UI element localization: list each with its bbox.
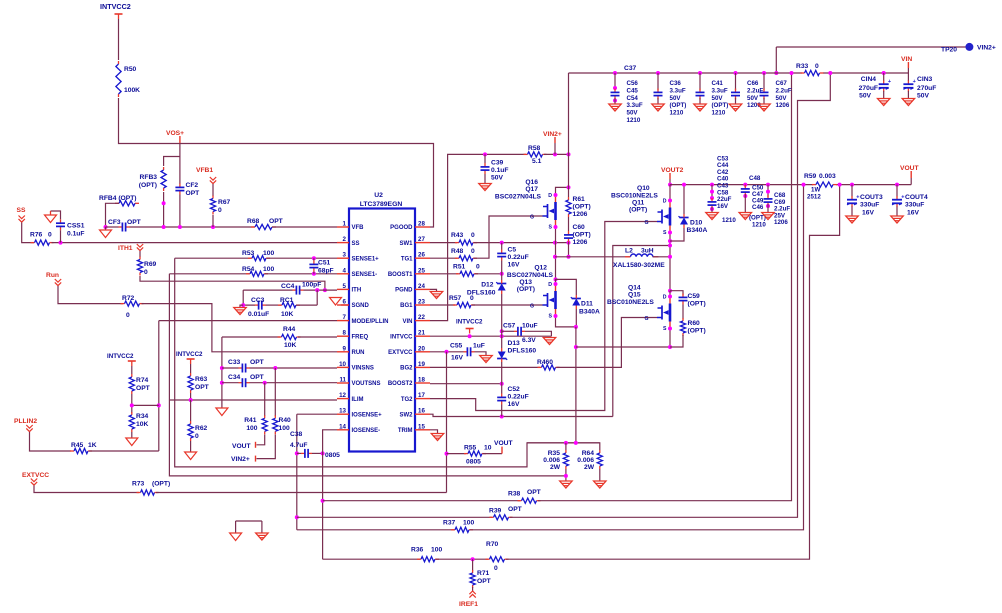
svg-text:270uF: 270uF <box>859 85 878 92</box>
svg-text:0.01uF: 0.01uF <box>248 311 269 318</box>
svg-text:50V: 50V <box>627 110 639 117</box>
svg-text:DFLS160: DFLS160 <box>467 290 496 297</box>
resistor RFB4 (OPT) <box>115 202 119 204</box>
wire BOOST2 pin 18 to D13/C52 node <box>430 383 502 385</box>
wire R63 to ILIM <box>190 393 192 400</box>
svg-text:Q12: Q12 <box>534 265 547 272</box>
svg-text:25: 25 <box>418 267 425 274</box>
wire CSS1 bottom to SS line <box>60 230 62 242</box>
svg-text:27: 27 <box>418 236 425 243</box>
svg-text:R59: R59 <box>804 173 817 180</box>
wire D11 anode down <box>575 309 577 327</box>
junction R63/R62 on ILIM <box>189 398 193 402</box>
svg-text:28: 28 <box>418 221 425 228</box>
svg-text:2W: 2W <box>584 464 595 471</box>
svg-text:R61: R61 <box>573 196 586 203</box>
net flag IREF1 <box>469 591 475 598</box>
capacitor CSS1 0.1uF <box>60 219 62 223</box>
wire RC1 to branch <box>296 304 317 306</box>
junction EXTVCC node <box>445 350 449 354</box>
resistor R35 0.006 2W <box>565 443 567 450</box>
wire SS to R76 <box>22 223 34 243</box>
svg-text:C66: C66 <box>747 80 759 87</box>
svg-text:R63: R63 <box>195 376 208 383</box>
svg-text:0.22uF: 0.22uF <box>508 254 529 261</box>
svg-text:(OPT): (OPT) <box>749 215 766 222</box>
svg-text:MODE/PLLIN: MODE/PLLIN <box>352 319 389 325</box>
resistor R43 0 <box>455 242 459 244</box>
resistor R51 0 <box>456 273 460 275</box>
wire R36 line <box>323 558 420 560</box>
svg-text:B340A: B340A <box>687 227 708 234</box>
svg-text:+: + <box>888 79 891 85</box>
wire VFB line <box>106 226 119 228</box>
svg-text:OPT: OPT <box>508 506 523 513</box>
svg-text:2W: 2W <box>550 464 561 471</box>
resistor R39 OPT <box>490 516 494 518</box>
resistor R71 OPT <box>472 570 474 573</box>
svg-text:10K: 10K <box>281 311 293 318</box>
wire tap to R74/R34 <box>132 404 159 406</box>
svg-text:IREF1: IREF1 <box>459 601 478 608</box>
svg-text:R48: R48 <box>451 248 464 255</box>
earth ground C33/C34/R44 <box>216 408 228 416</box>
svg-text:Q17: Q17 <box>525 186 538 193</box>
svg-text:Q16: Q16 <box>525 179 538 186</box>
earth ground R34 <box>126 438 138 446</box>
pin 17 TG2 <box>415 398 430 400</box>
svg-text:270uF: 270uF <box>917 85 936 92</box>
svg-text:24: 24 <box>418 283 425 290</box>
pin 23 BG1 <box>415 304 430 306</box>
pin 22 VIN <box>415 320 430 322</box>
wire R55 to VOUT tick <box>483 453 502 455</box>
svg-text:(OPT): (OPT) <box>573 232 591 239</box>
svg-text:BG1: BG1 <box>400 303 413 309</box>
resistor R69 0 <box>139 257 141 260</box>
svg-text:R51: R51 <box>453 264 466 271</box>
svg-text:6: 6 <box>343 299 347 306</box>
wire Q12 drain jog to D11 <box>556 279 577 295</box>
junction RFB3/RFB4 <box>162 201 166 205</box>
wire Q14 source down <box>669 329 671 348</box>
svg-text:(OPT): (OPT) <box>139 182 157 189</box>
op-amp U2 LTC3789EGN body <box>349 209 415 452</box>
svg-text:OPT: OPT <box>477 578 492 585</box>
svg-text:IOSENSE-: IOSENSE- <box>352 428 381 434</box>
svg-text:1206: 1206 <box>573 211 588 218</box>
svg-text:0.006: 0.006 <box>543 457 560 464</box>
transistor Q14/Q15 BSC010NE2LS <box>669 304 672 322</box>
svg-text:Q13: Q13 <box>519 279 532 286</box>
pin 13 IOSENSE+ <box>337 413 349 415</box>
svg-text:0805: 0805 <box>466 459 481 466</box>
resistor RFB3 (OPT) <box>163 167 165 170</box>
capacitor COUT4 330uF 16V <box>895 183 899 187</box>
wire TP20 riser to VIN bus <box>775 47 777 73</box>
junction C39 tap <box>483 152 487 156</box>
junction L2 left on SW1 <box>567 255 571 259</box>
svg-text:0.006: 0.006 <box>577 457 594 464</box>
junction C5 top <box>500 241 504 245</box>
wire IOSENSE+ long riser <box>296 414 298 530</box>
svg-text:C43: C43 <box>717 183 729 190</box>
wire D10 anode to SW2 node <box>670 228 684 241</box>
svg-text:0: 0 <box>476 264 480 271</box>
wire SGND pin 6 to ground <box>341 304 349 306</box>
svg-text:4.7uF: 4.7uF <box>290 442 307 449</box>
chassis ground at CC3 <box>240 305 243 307</box>
svg-text:16V: 16V <box>451 355 463 362</box>
svg-text:0.003: 0.003 <box>819 173 836 180</box>
wire R460 to Q14 gate <box>557 318 658 368</box>
svg-text:1: 1 <box>343 221 347 228</box>
svg-text:D: D <box>548 193 552 199</box>
chassis ground C39 <box>479 184 491 191</box>
svg-text:R68: R68 <box>247 218 260 225</box>
svg-text:Q14: Q14 <box>628 285 641 292</box>
svg-text:BSC027N04LS: BSC027N04LS <box>495 194 542 201</box>
svg-text:INTVCC2: INTVCC2 <box>100 2 131 11</box>
svg-text:0805: 0805 <box>325 452 340 459</box>
svg-text:PGOOD: PGOOD <box>390 225 413 231</box>
resistor R60 (OPT) <box>682 318 684 321</box>
svg-text:R67: R67 <box>218 199 231 206</box>
svg-text:100: 100 <box>463 520 474 527</box>
junction R40 tap on VINSNS <box>273 366 277 370</box>
wire C57 to ground <box>525 331 551 336</box>
svg-text:100K: 100K <box>124 87 140 94</box>
wire C34 to pin 11 VOUTSNS <box>250 382 338 384</box>
wire C59/R60 snubber branch <box>670 291 683 295</box>
svg-text:RUN: RUN <box>352 350 365 356</box>
pin 5 ITH <box>337 288 349 290</box>
svg-text:R44: R44 <box>283 326 296 333</box>
svg-text:TG1: TG1 <box>401 256 413 262</box>
junction VOUT2 bus <box>668 183 672 187</box>
resistor R72 0 <box>121 303 125 305</box>
capacitor column C48/C50/C47/C49/C46 (OPT) 1210 <box>743 183 747 187</box>
svg-text:0.1uF: 0.1uF <box>67 231 84 238</box>
wire Q16 drain to VIN2+ rail <box>556 187 569 195</box>
svg-text:(OPT): (OPT) <box>517 286 535 293</box>
wire R72 to pin 9 RUN <box>142 304 338 352</box>
svg-text:R64: R64 <box>582 450 595 457</box>
diode D13 DFLS160 <box>498 352 506 359</box>
svg-text:1206: 1206 <box>776 102 790 109</box>
capacitor column C53/C44/C42/C40/C43/C58 22uF 16V 1210 <box>710 183 714 187</box>
svg-text:8: 8 <box>343 330 347 337</box>
junction R35 top <box>564 441 568 445</box>
junction INTVCC2 tap <box>468 334 472 338</box>
junction R38 start <box>321 499 325 503</box>
svg-text:1uF: 1uF <box>473 343 485 350</box>
svg-text:S: S <box>663 326 667 332</box>
svg-text:INTVCC2: INTVCC2 <box>456 319 483 326</box>
wire SENSE1+ long run to sense resistors <box>175 258 600 467</box>
capacitor column C68/C69 2.2uF 25V 1206 <box>766 183 770 187</box>
svg-text:BOOST2: BOOST2 <box>388 381 413 387</box>
svg-text:R39: R39 <box>489 508 502 515</box>
wire EXTVCC to R73 <box>34 486 139 493</box>
svg-text:CF3: CF3 <box>108 219 121 226</box>
capacitor CIN4 270uF 50V <box>882 71 886 75</box>
test point TP20 <box>965 43 973 51</box>
resistor R38 OPT <box>518 500 522 502</box>
earth ground at CSS1 <box>45 215 57 223</box>
pin 9 RUN <box>337 351 349 353</box>
svg-text:D: D <box>548 282 552 288</box>
wire R74 to junction <box>131 394 133 413</box>
wire RC1 branch down <box>316 290 318 305</box>
svg-text:OPT: OPT <box>127 219 142 226</box>
wire INTVCC pin 21 line <box>430 335 551 337</box>
svg-text:+: + <box>856 194 859 200</box>
svg-text:R35: R35 <box>548 450 561 457</box>
wire ITH compensation line <box>243 289 292 291</box>
svg-text:3.3uF: 3.3uF <box>627 102 643 109</box>
svg-text:50V: 50V <box>859 93 871 100</box>
svg-text:U2: U2 <box>374 192 383 199</box>
pin 7 MODE/PLLIN <box>337 320 349 322</box>
svg-text:CIN4: CIN4 <box>861 76 877 83</box>
wire R73 to EXTVCC pin riser <box>156 492 447 494</box>
junction R67 on VFB <box>211 225 215 229</box>
svg-text:VOUT: VOUT <box>232 443 251 450</box>
junction CF2 on VFB <box>178 225 182 229</box>
svg-text:TP20: TP20 <box>941 47 957 54</box>
junction C51 top <box>312 256 316 260</box>
wire Q12 source to D11 anode <box>556 316 576 327</box>
svg-text:BSC010NE2LS: BSC010NE2LS <box>607 299 654 306</box>
svg-text:2.2uF: 2.2uF <box>776 87 792 94</box>
wire VIN2+ rail top <box>568 73 570 187</box>
wire R40 to VIN2+ tick <box>257 435 276 459</box>
wire BG1 to Q12 gate <box>472 304 543 306</box>
svg-text:Q11: Q11 <box>632 200 645 207</box>
svg-text:Q15: Q15 <box>628 292 641 299</box>
svg-text:R58: R58 <box>528 145 541 152</box>
svg-text:S: S <box>549 225 553 231</box>
junction VFB left <box>104 225 108 229</box>
svg-text:VOUT: VOUT <box>900 165 919 172</box>
diode D10 B340A <box>683 185 685 214</box>
svg-text:0: 0 <box>144 269 148 276</box>
svg-text:2: 2 <box>343 236 347 243</box>
svg-text:COUT3: COUT3 <box>860 194 883 201</box>
svg-text:Q10: Q10 <box>637 185 650 192</box>
svg-text:(OPT): (OPT) <box>688 301 706 308</box>
svg-text:9: 9 <box>343 345 347 352</box>
svg-text:G: G <box>644 316 648 322</box>
wire VOUT2 tick down <box>669 179 671 185</box>
wire VIN bus <box>569 72 803 74</box>
svg-text:SS: SS <box>17 207 26 214</box>
wire source node down to sense resistors <box>575 327 577 443</box>
pin 26 TG1 <box>415 257 430 259</box>
svg-text:R62: R62 <box>195 425 208 432</box>
svg-text:+: + <box>913 79 916 85</box>
wire Q10 drain to VOUT2 <box>669 185 671 201</box>
wire link to Q14 source <box>576 346 670 348</box>
svg-text:R60: R60 <box>688 320 701 327</box>
inductor L2 3uH <box>625 256 631 258</box>
svg-text:COUT4: COUT4 <box>905 194 928 201</box>
resistor R64 0.006 2W <box>599 450 601 453</box>
wire C39 to R58 <box>487 153 526 155</box>
junction C34 left <box>220 381 224 385</box>
svg-text:C59: C59 <box>688 293 701 300</box>
junction PGND link <box>574 345 578 349</box>
wire VFB1 to R67 <box>212 184 214 196</box>
svg-text:C37: C37 <box>624 65 637 72</box>
wire R38 to VIN bus riser <box>538 73 792 501</box>
svg-text:ITH1: ITH1 <box>118 245 133 252</box>
wire BOOST1 pin 25 to R51 <box>430 273 458 275</box>
wire VFB line CF3 to R68 <box>130 226 256 228</box>
svg-text:D: D <box>663 295 667 301</box>
capacitor C59 (OPT) <box>682 294 684 298</box>
svg-text:0: 0 <box>494 565 498 572</box>
junction VIN2+ rail <box>567 152 571 156</box>
resistor RC1 10K <box>278 304 282 306</box>
svg-text:R38: R38 <box>508 491 521 498</box>
svg-text:D13: D13 <box>508 340 521 347</box>
svg-text:VOS+: VOS+ <box>166 130 184 137</box>
svg-text:0: 0 <box>48 232 52 239</box>
svg-text:100: 100 <box>431 547 442 554</box>
junction Q12 source node <box>574 325 578 329</box>
junction VIN2+ tick <box>553 152 557 156</box>
svg-text:SS: SS <box>352 241 360 247</box>
resistor R44 10K <box>278 336 282 338</box>
svg-text:VIN2+: VIN2+ <box>543 131 562 138</box>
wire CSS1 top hook to ground <box>51 211 61 219</box>
svg-text:1210: 1210 <box>712 110 726 117</box>
capacitor C39 0.1uF 50V <box>484 154 486 163</box>
wire SENSE1- long run to sense resistors <box>169 274 566 476</box>
svg-text:IOSENSE+: IOSENSE+ <box>352 412 383 418</box>
wire R58 to VIN2+ rail <box>544 153 569 155</box>
wire BOOST1 to C5/D12 node <box>475 273 502 275</box>
capacitor C51 68pF <box>313 261 315 265</box>
svg-text:EXTVCC: EXTVCC <box>388 350 413 356</box>
capacitor C5 0.22uF 16V <box>501 250 503 254</box>
svg-text:16V: 16V <box>862 210 874 217</box>
junction D12/D13 on INTVCC <box>500 334 504 338</box>
svg-text:3: 3 <box>343 252 347 259</box>
wire R41 riser <box>264 383 266 416</box>
wire EXTVCC riser down to R55 and R73 <box>446 352 448 493</box>
junction R36 on VOUT line <box>838 183 842 187</box>
junction C60 bottom on SW1 <box>567 241 571 245</box>
svg-text:50V: 50V <box>491 175 503 182</box>
wire R37 line <box>297 529 454 531</box>
svg-text:26: 26 <box>418 252 425 259</box>
svg-text:B340A: B340A <box>579 309 600 316</box>
junction R55 tap <box>445 452 449 456</box>
svg-text:VOUT: VOUT <box>494 440 513 447</box>
svg-text:Run: Run <box>46 272 59 279</box>
wire CF2 to VFB line <box>179 195 181 228</box>
svg-text:1206: 1206 <box>774 219 788 226</box>
capacitor C52 0.22uF 16V <box>501 394 503 398</box>
svg-text:R54: R54 <box>242 266 255 273</box>
svg-text:3uH: 3uH <box>641 248 654 255</box>
wire R44 to pin 8 <box>298 336 337 338</box>
power flag INTVCC2 (top left) <box>115 13 123 15</box>
svg-text:OPT: OPT <box>186 190 201 197</box>
wire VFB to pin 1 <box>272 226 337 228</box>
wire PLLIN2 riser <box>158 321 160 451</box>
junction C33 left <box>220 366 224 370</box>
svg-text:G: G <box>644 220 648 226</box>
wire R69 to ITH line <box>140 276 325 290</box>
svg-text:TRIM: TRIM <box>398 428 413 434</box>
pin 12 ILIM <box>337 398 349 400</box>
junction RFB divider on VFB <box>162 225 166 229</box>
svg-text:LTC3789EGN: LTC3789EGN <box>360 201 403 208</box>
wire PLLIN2 to R45 <box>30 432 72 451</box>
svg-text:XAL1580-302ME: XAL1580-302ME <box>613 262 665 269</box>
capacitor C57 10uF 6.3V <box>500 329 504 333</box>
resistor R67 <box>212 196 214 199</box>
resistor R54 100 <box>246 273 250 275</box>
svg-text:BOOST1: BOOST1 <box>388 272 413 278</box>
wire IOSENSE- pin 14 riser <box>323 430 337 559</box>
resistor R68 OPT <box>251 226 255 228</box>
capacitor C41 (input bank) <box>698 71 702 75</box>
svg-text:1W: 1W <box>811 187 820 194</box>
svg-text:INTVCC2: INTVCC2 <box>107 353 134 360</box>
pin 18 BOOST2 <box>415 382 430 384</box>
resistor R34 10K <box>131 412 133 415</box>
svg-text:0: 0 <box>471 232 475 239</box>
chassis ground PGND <box>430 292 442 299</box>
wire R55 line <box>447 453 467 455</box>
wire VIN pin 22 riser to R58 line <box>430 154 483 320</box>
svg-text:C51: C51 <box>318 260 331 267</box>
junction CSS1 on SS line <box>59 241 63 245</box>
svg-text:VOUTSNS: VOUTSNS <box>352 381 381 387</box>
earth ground SGND (triangle at pin 6) <box>330 298 342 306</box>
capacitor C66 (input bank) <box>734 71 738 75</box>
svg-text:1206: 1206 <box>573 239 588 246</box>
wire R71 branch <box>472 559 474 571</box>
svg-text:17: 17 <box>418 392 425 399</box>
svg-text:C39: C39 <box>491 160 504 167</box>
capacitor C36 (input bank) <box>656 71 660 75</box>
junction SW2 node points <box>668 239 672 243</box>
svg-text:100: 100 <box>279 425 290 432</box>
svg-text:100pF: 100pF <box>302 282 321 289</box>
pin 14 IOSENSE- <box>337 429 349 431</box>
wire R53 to pin 3 <box>267 257 337 259</box>
svg-text:R34: R34 <box>136 413 149 420</box>
svg-text:13: 13 <box>339 408 346 415</box>
svg-text:1K: 1K <box>88 442 97 449</box>
resistor R55 10 <box>464 453 468 455</box>
wire SENSE1+ line to R53 <box>175 257 251 259</box>
svg-text:R36: R36 <box>411 547 424 554</box>
svg-text:INTVCC: INTVCC <box>390 334 413 340</box>
wire SENSE1- line to R54 <box>169 273 249 275</box>
junction ITH1 on ITH <box>323 288 327 292</box>
svg-text:R33: R33 <box>796 63 809 70</box>
svg-text:BG2: BG2 <box>400 366 413 372</box>
wire TG2 pin 17 with jog <box>430 222 657 411</box>
capacitor CC3 0.01uF <box>255 304 259 306</box>
